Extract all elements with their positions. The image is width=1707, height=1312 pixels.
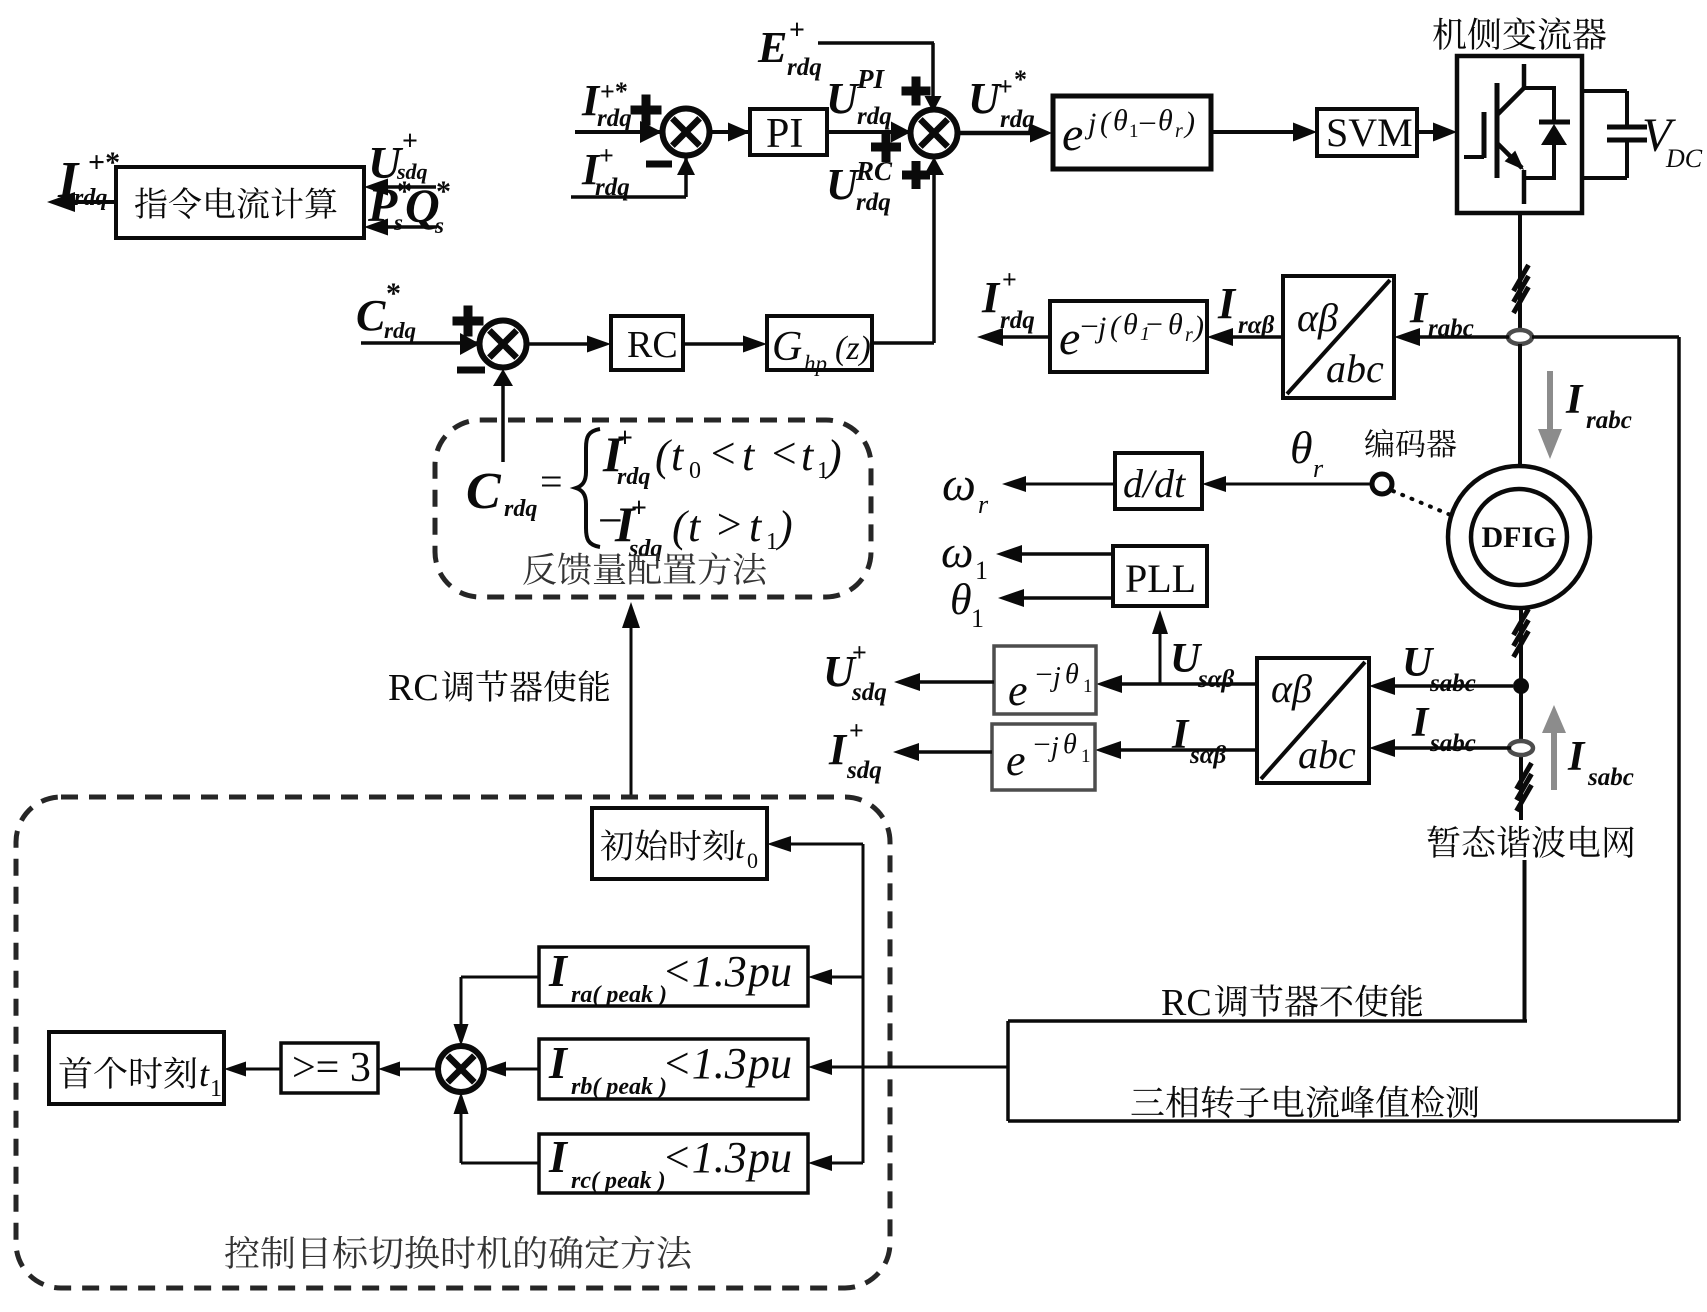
svg-text:1: 1 [766,529,778,555]
svg-text:PI: PI [766,111,803,157]
svg-text:(z): (z) [835,330,871,367]
svg-text:*: * [436,175,451,208]
svg-text:1: 1 [1129,121,1139,142]
svg-text:abc: abc [1326,346,1384,391]
svg-text:<1.3: <1.3 [662,1039,747,1088]
svg-text:rdq: rdq [617,464,650,490]
svg-text:–: – [1034,727,1050,758]
svg-text:rdq: rdq [595,174,630,201]
svg-text:θ: θ [950,575,972,624]
svg-text:C: C [466,463,502,520]
svg-text:ra( peak ): ra( peak ) [571,982,667,1008]
svg-text:+: + [852,638,867,667]
svg-text:I: I [1565,377,1584,423]
svg-text:+: + [998,72,1013,101]
svg-text:ω: ω [942,458,976,511]
svg-text:rc( peak ): rc( peak ) [571,1168,666,1194]
svg-text:RC: RC [388,667,439,709]
svg-text:0: 0 [747,848,758,873]
svg-text:I: I [1409,283,1429,332]
svg-text:rαβ: rαβ [1238,312,1275,339]
svg-text:θ: θ [1063,729,1077,760]
svg-text:–: – [1139,104,1156,137]
svg-text:C: C [356,291,386,340]
svg-text:θ: θ [1168,308,1183,341]
svg-text:ω: ω [941,526,973,577]
svg-text:U: U [968,74,1002,123]
svg-text:I: I [981,273,1001,322]
svg-text:pu: pu [745,947,792,996]
svg-text:rdq: rdq [597,105,632,132]
svg-text:rdq: rdq [1000,106,1035,133]
svg-text:+*: +* [88,146,120,179]
svg-text:>: > [714,500,744,549]
svg-text:−: − [1146,308,1163,341]
svg-text:0: 0 [689,458,701,484]
svg-text:U: U [826,160,860,209]
svg-text:): ) [1183,106,1195,139]
svg-text:sdq: sdq [851,679,887,706]
svg-text:pu: pu [745,1039,792,1088]
svg-text:PLL: PLL [1125,556,1196,601]
svg-text:rdq: rdq [1000,307,1035,334]
svg-text:t: t [199,1054,210,1094]
svg-text:r: r [1175,120,1183,142]
svg-text:RC: RC [1161,982,1212,1024]
svg-text:rabc: rabc [1586,407,1632,434]
svg-text:): ) [824,431,842,480]
svg-text:<: < [708,429,738,478]
svg-text:>= 3: >= 3 [292,1045,371,1091]
svg-text:(: ( [655,431,672,480]
svg-text:t: t [749,502,763,551]
svg-text:e: e [1006,736,1026,785]
svg-text:I: I [1217,279,1237,328]
svg-text:RC: RC [855,156,893,186]
svg-text:<: < [769,429,799,478]
svg-text:+: + [617,423,633,454]
svg-text:θ: θ [1113,104,1128,137]
svg-text:s: s [434,213,444,238]
svg-text:t: t [742,431,756,480]
svg-text:*: * [1014,65,1027,94]
svg-text:θ: θ [1290,422,1313,473]
svg-text:1: 1 [210,1076,222,1102]
svg-text:G: G [772,324,802,370]
svg-text:sdq: sdq [846,757,882,784]
svg-text:αβ: αβ [1297,295,1338,340]
svg-text:<1.3: <1.3 [662,947,747,996]
svg-text:pu: pu [745,1133,792,1182]
svg-text:–: – [1081,307,1098,340]
svg-text:s: s [393,210,403,235]
svg-text:t: t [688,502,702,551]
svg-text:I: I [548,1037,569,1088]
svg-text:r: r [1313,454,1324,483]
svg-text:αβ: αβ [1271,666,1312,711]
svg-text:rdq: rdq [74,185,107,211]
svg-text:1: 1 [1081,746,1091,767]
svg-text:1: 1 [971,604,984,633]
svg-text:sαβ: sαβ [1197,666,1235,693]
svg-text:+: + [402,126,418,157]
svg-text:sαβ: sαβ [1189,742,1227,769]
svg-text:+: + [631,493,647,524]
svg-text:U: U [826,74,860,123]
svg-text:RC: RC [627,324,678,366]
svg-text:sabc: sabc [1587,764,1634,791]
svg-text:*: * [386,277,401,310]
svg-text:θ: θ [1065,659,1079,690]
svg-text:+: + [789,15,805,46]
svg-text:r: r [978,490,989,519]
svg-text:): ) [775,502,793,551]
svg-text:rabc: rabc [1428,315,1474,342]
svg-text:sabc: sabc [1429,730,1476,757]
svg-text:I: I [1411,700,1430,746]
svg-text:+*: +* [600,77,628,106]
svg-text:–: – [1036,657,1052,688]
svg-text:SVM: SVM [1326,110,1413,155]
svg-text:1: 1 [1083,676,1093,697]
svg-text:DC: DC [1665,144,1703,173]
svg-text:1: 1 [975,556,988,585]
svg-text:hp: hp [804,351,827,376]
svg-text:d/dt: d/dt [1123,461,1186,506]
svg-text:I: I [548,1131,569,1182]
svg-text:r: r [1185,324,1193,346]
svg-text:rdq: rdq [856,189,891,216]
svg-text:PI: PI [856,64,885,94]
svg-text:<1.3: <1.3 [662,1133,747,1182]
svg-text:DFIG: DFIG [1482,521,1557,554]
svg-text:θ: θ [1158,104,1173,137]
svg-text:rdq: rdq [787,54,822,81]
svg-text:rdq: rdq [857,103,892,130]
svg-text:E: E [757,23,787,72]
svg-text:e: e [1062,108,1083,161]
svg-text:rb( peak ): rb( peak ) [571,1074,667,1100]
svg-text:e: e [1059,312,1080,365]
svg-text:I: I [828,725,848,774]
svg-text:+: + [849,716,864,745]
svg-text:t: t [801,431,815,480]
svg-text:rdq: rdq [504,496,537,522]
svg-text:+: + [1002,265,1017,294]
svg-text:I: I [1171,712,1190,758]
svg-text:=: = [540,459,563,504]
svg-text:(: ( [672,502,689,551]
svg-text:sabc: sabc [1429,670,1476,697]
svg-text:t: t [671,431,685,480]
svg-text:+: + [599,141,614,170]
svg-text:rdq: rdq [384,318,416,343]
svg-text:e: e [1008,666,1028,715]
svg-text:θ: θ [1123,308,1138,341]
svg-text:): ) [1192,310,1204,343]
svg-text:I: I [548,945,569,996]
svg-text:t: t [735,829,746,866]
svg-text:abc: abc [1298,732,1356,777]
svg-text:I: I [1567,734,1586,780]
